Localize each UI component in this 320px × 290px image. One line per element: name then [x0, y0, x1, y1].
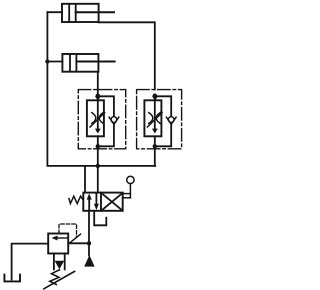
- wire to valve port B: [97, 166, 99, 193]
- wire C2 right port to left flow control: [97, 72, 99, 101]
- relief valve RV1 pilot diagonal: [69, 234, 81, 243]
- relief valve RV1 pilot dashed box: [59, 224, 77, 237]
- directional valve V1 left position arrows: [87, 193, 99, 210]
- relief valve RV1 body: [48, 234, 68, 254]
- flow control FC1 throttle body: [87, 100, 104, 136]
- flow control FC2 flow line with arrowheads: [152, 96, 158, 134]
- wire C1 right port to right flow control: [98, 22, 154, 89]
- directional valve V1 right position crossed paths: [103, 194, 121, 209]
- wire to valve port A: [84, 166, 86, 193]
- relief valve RV1 adjustable spring: [44, 270, 75, 289]
- flow control FC1 adjustment arrow: [90, 113, 105, 127]
- relief valve RV1 drain legs and triangle: [54, 254, 65, 270]
- node FC1 top junction: [96, 94, 100, 98]
- check valve CV1: [109, 117, 119, 125]
- flow control FC1 flow line with arrowheads: [95, 96, 101, 134]
- cylinder C1 body: [62, 4, 99, 22]
- wire CV2 outlet: [155, 124, 171, 146]
- spring on valve V1: [69, 196, 83, 203]
- tank symbol: [4, 275, 20, 282]
- wire riser to C1 left port: [47, 11, 62, 13]
- node FC1 bottom junction: [96, 144, 100, 148]
- flow control FC2 throttle body: [144, 100, 161, 136]
- wire CV1 outlet: [98, 124, 114, 146]
- wire riser to C2 left port: [47, 61, 62, 63]
- directional valve V1 body: [83, 193, 122, 211]
- flow control FC2 enclosure (dash-dot box): [137, 90, 182, 149]
- flow control FC1 bypass wire to check valve: [98, 96, 114, 116]
- wire FC1 outlet: [97, 136, 99, 166]
- wire valve P port down: [88, 211, 90, 256]
- wire relief valve inlet: [68, 242, 89, 244]
- node valve feed junction: [96, 164, 100, 168]
- flow control FC2 bypass wire to check valve: [155, 96, 171, 116]
- pressure source (filled triangle): [84, 255, 94, 267]
- node riser junction at C2: [45, 59, 49, 63]
- flow control FC2 adjustment arrow: [147, 113, 162, 127]
- cylinder C2 piston: [70, 54, 76, 71]
- node FC2 bottom junction: [153, 144, 157, 148]
- node FC2 top junction: [153, 94, 157, 98]
- cylinder C1 rod: [76, 11, 114, 13]
- check valve CV2: [166, 117, 176, 125]
- flow control FC1 throttle arcs: [92, 113, 103, 124]
- relief valve RV1 internal arrow: [52, 236, 69, 241]
- roller actuator on valve V1: [123, 176, 134, 198]
- wire valve T port (exhaust): [94, 211, 106, 226]
- wire left riser: [47, 12, 155, 166]
- node supply junction: [87, 241, 91, 245]
- flow control FC1 enclosure (dash-dot box): [78, 90, 125, 149]
- cylinder C1 piston: [69, 4, 76, 22]
- cylinder C2 rod: [76, 61, 114, 63]
- flow control FC2 throttle arcs: [149, 113, 160, 124]
- cylinder C2 body: [62, 54, 98, 72]
- wire relief valve outlet to tank: [12, 244, 49, 280]
- wire FC2 outlet: [154, 136, 156, 166]
